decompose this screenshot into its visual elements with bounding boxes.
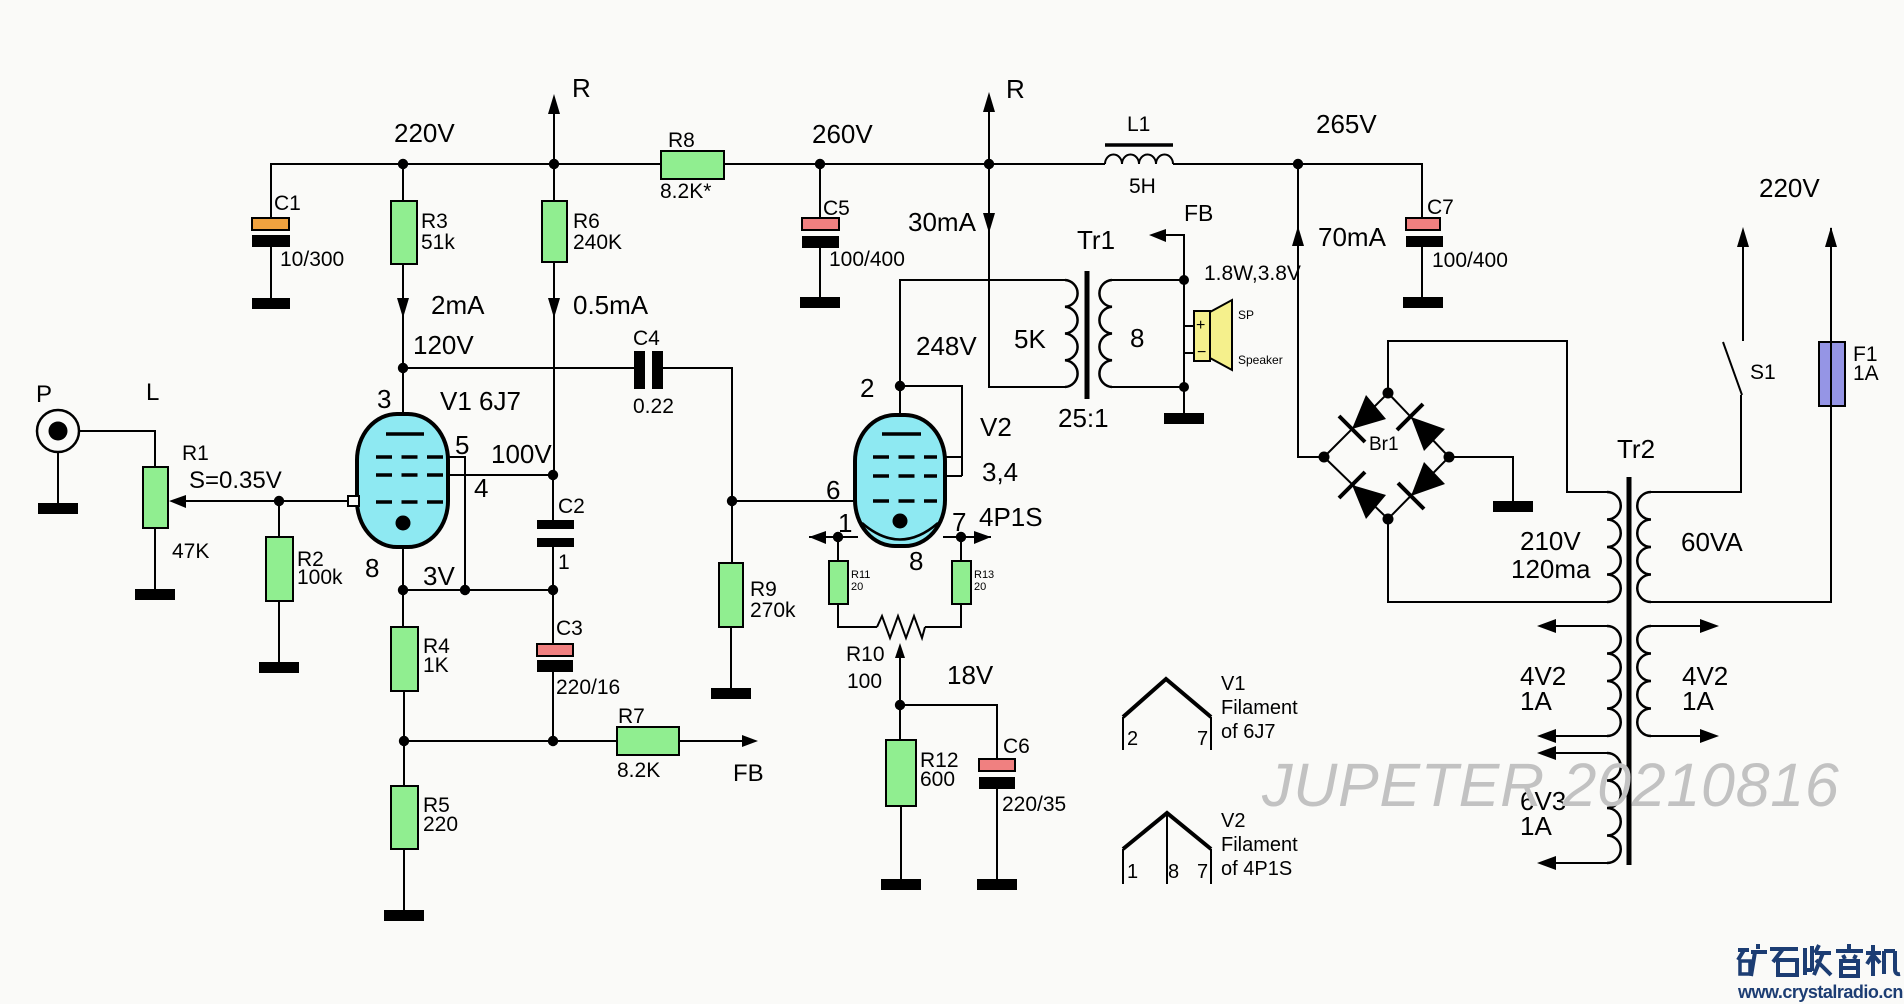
ground C7 [1403,297,1443,308]
wire V2 plate node stub [899,386,901,434]
svg-text:5K: 5K [1014,324,1046,354]
wire Tr1 secondary top [1112,279,1184,281]
svg-text:R8: R8 [668,129,695,152]
ground P [38,503,78,514]
Tr2 4V2 right winding [1637,626,1651,736]
svg-text:220/35: 220/35 [1002,793,1066,816]
svg-text:8: 8 [1168,861,1179,883]
svg-text:P: P [36,381,52,408]
ground C1 [252,298,290,309]
node R7 rail left [399,736,409,746]
svg-text:R1: R1 [182,442,209,465]
node 30mA feed [984,159,994,169]
wire R1 wiper to V1 grid [184,500,348,502]
svg-text:L: L [146,379,159,406]
svg-text:S=0.35V: S=0.35V [189,467,282,494]
arrow R10 tap up [895,643,905,658]
svg-text:1A: 1A [1520,686,1552,716]
svg-text:3V: 3V [423,561,455,591]
svg-text:100k: 100k [297,566,343,589]
capacitor C6 [979,735,1066,816]
arrow 4V2 right bottom [1700,729,1719,743]
resistor R5 [391,786,458,849]
tube V1 6J7 [357,384,521,583]
resistor R7 [617,705,679,782]
wire speaker stubs [1184,325,1194,327]
wire C5 branch [819,164,821,218]
svg-text:R3: R3 [421,210,448,233]
svg-text:25:1: 25:1 [1058,403,1109,433]
Tr2 primary 210V winding [1607,492,1621,602]
wire V2 filament left pin1 [809,536,858,538]
svg-text:Tr1: Tr1 [1077,225,1115,255]
wire C3 vertical [552,590,554,644]
svg-text:L1: L1 [1127,113,1150,136]
fuse F1 [1819,227,1879,406]
svg-text:220V: 220V [394,118,455,148]
node V2 grid [727,496,737,506]
svg-text:5: 5 [455,430,469,460]
potentiometer R1 [143,442,282,563]
svg-text:Filament: Filament [1221,834,1298,856]
svg-text:V2: V2 [1221,810,1245,832]
svg-text:20: 20 [974,581,986,593]
svg-text:V1: V1 [1221,673,1245,695]
capacitor C7 [1406,196,1508,272]
svg-text:1: 1 [1127,861,1138,883]
wire S1 upper [1742,232,1744,341]
node R6 top [549,159,559,169]
svg-text:V1 6J7: V1 6J7 [440,386,521,416]
svg-text:1.8W,3.8V: 1.8W,3.8V [1204,262,1301,285]
svg-text:1A: 1A [1682,686,1714,716]
svg-text:+: + [1196,317,1205,334]
wire B+ rail 220V-260V-265V [271,164,661,218]
wire V2 filament right pin7 [943,536,991,538]
arrow 70mA up [1292,222,1387,252]
capacitor C1 [252,192,344,271]
wire C2 vertical [552,475,554,520]
node V2 plate 248V [895,331,978,391]
svg-text:www.crystalradio.cn: www.crystalradio.cn [1737,982,1903,1002]
svg-text:1: 1 [558,551,570,574]
svg-text:18V: 18V [947,660,994,690]
wire R2 branch [278,501,280,537]
wire C7 lower [1421,247,1423,297]
ground speaker [1164,413,1204,424]
svg-text:0.5mA: 0.5mA [573,290,649,320]
svg-text:C5: C5 [823,197,850,220]
svg-text:47K: 47K [172,540,209,563]
arrow 30mA down [908,207,995,237]
svg-text:600: 600 [920,768,955,791]
svg-text:100V: 100V [491,439,552,469]
jack P [36,379,159,452]
tube V2 4P1S [826,373,1043,576]
svg-text:S1: S1 [1750,361,1776,384]
wire 30mA feed to Tr1 primary bottom [989,164,1065,387]
speaker SP [1194,300,1283,370]
svg-text:20: 20 [851,581,863,593]
node 220V [394,118,455,169]
svg-text:220V: 220V [1759,173,1820,203]
svg-text:R10: R10 [846,643,885,666]
wire Tr2 4V2 left leads [1551,625,1607,627]
node R7 rail C3 [548,736,558,746]
V2 filament diagram [1123,810,1298,884]
switch S1 [1737,227,1776,384]
wire Tr2 6V3 leads [1551,752,1607,754]
wire V2 grid pin6 [732,500,855,502]
resistor R9 [719,563,796,627]
wire R10 tap to 18V node [899,658,901,705]
wire input jack to R1 [79,431,155,467]
svg-text:R11: R11 [851,569,870,581]
svg-text:1K: 1K [423,654,449,677]
resistor R11 [829,561,870,604]
arrow FB top [1149,200,1301,285]
wire bridge bottom to Tr2 primary bottom [1388,519,1607,602]
arrow 6V3 bottom [1537,856,1556,870]
wire F1 upper [1830,228,1832,342]
svg-text:248V: 248V [916,331,977,361]
svg-text:4: 4 [474,473,488,503]
wire V1 pin5 to 3V rail [437,457,465,590]
svg-text:2: 2 [1127,728,1138,750]
wire S1 to Tr2 60VA top [1651,395,1741,492]
svg-text:7: 7 [1197,728,1208,750]
inductor L1 5H [1105,113,1173,198]
arrow 2mA down [397,290,485,320]
wire V2 plate to Tr1 primary top [900,280,1065,386]
svg-text:C2: C2 [558,495,585,518]
wire R1 bottom [154,528,156,589]
svg-text:6: 6 [826,475,840,505]
wire R arrow right [988,110,990,164]
svg-text:4P1S: 4P1S [979,502,1043,532]
svg-text:R7: R7 [618,705,645,728]
wire R3 branch [402,164,404,201]
svg-text:C1: C1 [274,192,301,215]
svg-text:220/16: 220/16 [556,676,620,699]
wire R11 [837,537,839,561]
V1 filament diagram [1123,673,1298,750]
wire speaker vertical [1183,280,1185,387]
wire C4 to V2 grid node [663,368,732,501]
svg-text:R: R [1006,74,1025,104]
node Tr1 secondary top [1179,275,1189,285]
wire C1 lower [270,247,272,298]
Tr2 secondary 60VA winding [1637,492,1651,602]
svg-text:240K: 240K [573,231,622,254]
arrow 0.5mA down [548,290,649,320]
wire V1 plate pin3 [402,368,404,434]
wire 70mA branch to bridge [1298,164,1324,457]
svg-text:220: 220 [423,813,458,836]
arrow 4V2 left top [1537,619,1556,633]
wire R7 rail [404,740,617,742]
wire R6 branch down to 100V node [553,164,555,201]
wire F1 to Tr2 60VA bottom [1651,406,1831,602]
node R1 wiper R2 [274,496,284,506]
svg-text:120V: 120V [413,330,474,360]
ground R9 [711,688,751,699]
wire V1 cathode pin8 [402,528,404,590]
ground R2 [259,662,299,673]
svg-text:70mA: 70mA [1318,222,1387,252]
capacitor C2 [537,495,585,574]
wire FB tap [1157,235,1184,280]
svg-text:210V: 210V [1520,526,1581,556]
wire 18V node to C6 [900,705,997,759]
arrow FB lower [733,735,764,787]
svg-text:SP: SP [1238,308,1254,322]
svg-text:8: 8 [909,546,923,576]
svg-text:2: 2 [860,373,874,403]
svg-text:3,4: 3,4 [982,457,1018,487]
wire P jack stem [57,452,59,503]
svg-text:8: 8 [365,553,379,583]
svg-text:8.2K*: 8.2K* [660,180,711,203]
wire R12 [899,705,901,740]
svg-text:0.22: 0.22 [633,395,674,418]
ground R12 [881,879,921,890]
ground R5 [384,910,424,921]
svg-text:C4: C4 [633,327,660,350]
svg-text:10/300: 10/300 [280,248,344,271]
svg-text:FB: FB [1184,200,1213,226]
svg-text:C3: C3 [556,617,583,640]
capacitor C3 [537,617,620,699]
node 120V [398,330,475,373]
svg-text:5H: 5H [1129,175,1156,198]
svg-text:270k: 270k [750,599,796,622]
node 265V [1293,109,1378,169]
svg-text:V2: V2 [980,412,1012,442]
svg-text:FB: FB [733,760,764,787]
wire V2 screen tie 3,4 [900,386,962,476]
transformer Tr1 [1014,225,1144,433]
svg-text:120ma: 120ma [1511,554,1591,584]
svg-text:7: 7 [1197,861,1208,883]
svg-text:C7: C7 [1427,196,1454,219]
svg-text:R13: R13 [974,569,994,581]
ground C5 [800,297,840,308]
svg-text:2mA: 2mA [431,290,485,320]
arrow 4V2 right top [1700,619,1719,633]
wire R13 [960,537,962,561]
arrow V2 pin7 right [974,531,991,544]
svg-text:of 4P1S: of 4P1S [1221,858,1292,880]
Tr2 6V3 winding [1607,753,1621,863]
wire 3V rail [403,589,553,591]
capacitor C5 [802,197,905,271]
node 260V [812,119,873,169]
resistor R4 [391,627,450,691]
node pin7 [956,532,966,542]
svg-text:Br1: Br1 [1369,434,1399,455]
svg-text:100/400: 100/400 [829,248,905,271]
svg-text:260V: 260V [812,119,873,149]
wire 120V rail to C4 [403,367,634,369]
arrow 4V2 left bottom [1537,729,1556,743]
svg-text:51k: 51k [421,231,455,254]
svg-text:8: 8 [1130,323,1144,353]
svg-text:−: − [1197,344,1206,361]
ground C6 [977,879,1017,890]
wire R arrow left [553,112,555,164]
wire V1 pin4 to 100V node [437,474,553,476]
resistor R2 [266,537,343,601]
wire Tr2 4V2 right leads [1651,625,1705,627]
wire S1 blade [1723,342,1742,395]
svg-text:Filament: Filament [1221,697,1298,719]
arrow V2 pin1 left [809,531,826,544]
svg-text:Speaker: Speaker [1238,353,1283,367]
svg-text:R9: R9 [750,578,777,601]
node 3V rail [398,561,558,595]
resistor R10 zigzag [846,616,925,693]
svg-text:265V: 265V [1316,109,1377,139]
wire R4 [402,590,404,627]
ground R1 [135,589,175,600]
svg-text:C6: C6 [1003,735,1030,758]
svg-text:100/400: 100/400 [1432,249,1508,272]
resistor R3 [391,201,455,264]
bridge rectifier Br1 [1319,388,1455,525]
wire bridge right to ground [1449,457,1513,501]
svg-text:60VA: 60VA [1681,527,1743,557]
svg-text:100: 100 [847,670,882,693]
capacitor C4 [633,327,674,418]
svg-text:JUPETER 20210816: JUPETER 20210816 [1261,751,1839,819]
svg-text:30mA: 30mA [908,207,977,237]
node 100V [491,439,558,480]
ground bridge [1493,501,1533,512]
svg-text:R6: R6 [573,210,600,233]
svg-text:8.2K: 8.2K [617,759,660,782]
logo kuangshi shouyinji characters [1738,944,1900,976]
wire speaker ground [1183,387,1185,413]
V1 grid terminal square [348,496,359,506]
wire R9 [731,501,733,563]
svg-text:3: 3 [377,384,391,414]
Tr2 4V2 left winding [1607,626,1621,736]
arrow R right [983,74,1025,112]
node Tr1 secondary bottom [1179,382,1189,392]
wire R5 to ground [403,741,405,786]
svg-text:1A: 1A [1853,362,1879,385]
transformer Tr2 [1511,434,1743,865]
svg-text:R: R [572,73,591,103]
wire bridge top to Tr2 primary [1388,341,1607,492]
svg-text:of 6J7: of 6J7 [1221,721,1275,743]
resistor R8 [660,129,724,203]
arrow R left [548,73,591,114]
resistor R12 [886,740,959,806]
resistor R6 [542,201,622,262]
wire Tr1 secondary bottom [1112,386,1184,388]
arrow 6V3 top [1537,746,1556,760]
resistor R13 [952,561,994,604]
node pin1 [833,532,843,542]
svg-text:Tr2: Tr2 [1617,434,1655,464]
node 18V [895,660,994,710]
